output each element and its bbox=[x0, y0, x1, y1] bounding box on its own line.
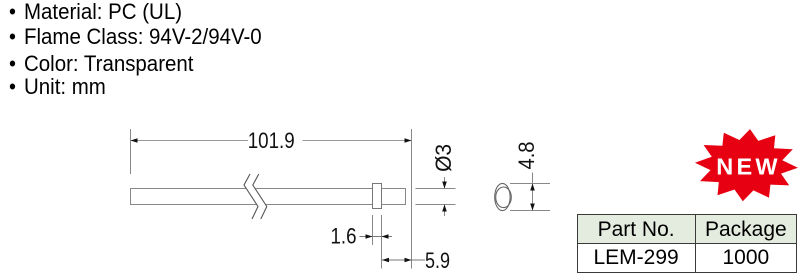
svg-text:Ø3: Ø3 bbox=[431, 144, 456, 172]
svg-text:5.9: 5.9 bbox=[425, 248, 450, 273]
svg-text:1.6: 1.6 bbox=[331, 224, 357, 249]
svg-text:NEW: NEW bbox=[716, 153, 780, 179]
svg-text:101.9: 101.9 bbox=[248, 128, 295, 153]
svg-text:4.8: 4.8 bbox=[514, 142, 539, 170]
